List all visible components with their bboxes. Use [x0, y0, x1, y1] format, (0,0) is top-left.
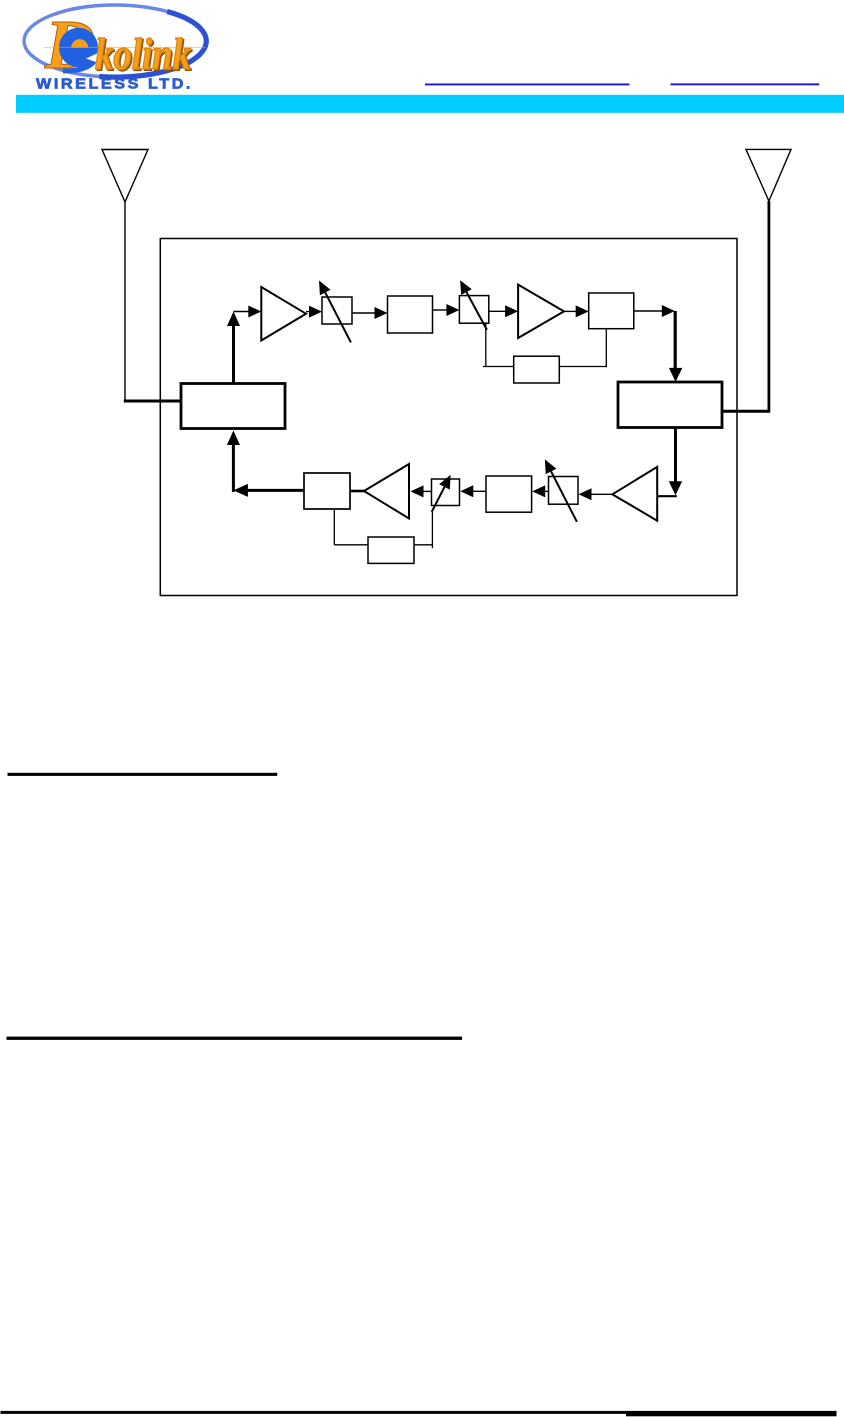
wire duplexer-right bottom drop	[674, 428, 677, 483]
wire corner to amp U3	[657, 495, 677, 497]
wire down into duplexer right	[674, 311, 677, 369]
attenuator AT1 box	[322, 297, 352, 324]
arrow into amp U2	[505, 305, 518, 317]
arrow down to lower chain	[669, 481, 682, 495]
coupler path wire up to FL2	[605, 329, 607, 368]
wire amp U3 out	[590, 493, 612, 495]
attenuator AT2 diagonal arrowhead	[460, 280, 472, 295]
arrow up into top chain	[227, 312, 240, 327]
logo letter e counter	[71, 39, 88, 47]
attenuator AT4 diagonal arrowhead	[439, 475, 450, 490]
coupler CPL1 box	[514, 356, 560, 383]
antenna left	[102, 150, 148, 203]
arrow into amp U4	[411, 485, 424, 497]
wire amp U4 to box FL4	[350, 490, 364, 493]
wire FL4 to left corner	[246, 489, 304, 492]
coupler path wire AT2 down	[485, 323, 487, 366]
attenuator AT4 diagonal	[432, 487, 445, 512]
arrow left at lower corner	[233, 484, 248, 497]
section heading underline 2	[7, 1037, 463, 1040]
amplifier U4	[364, 464, 409, 519]
arrow at top right corner	[662, 305, 675, 317]
attenuator AT3 diagonal	[551, 471, 577, 521]
wire amp U2 out	[564, 310, 577, 312]
logo ellipse right arc	[99, 12, 206, 78]
filter FL3	[486, 476, 532, 512]
arrow into filter FL3	[532, 485, 545, 497]
svg-text:kolink: kolink	[95, 30, 191, 79]
coupler path wire to CPL2	[334, 544, 368, 546]
arrow into attenuator AT2	[446, 304, 459, 316]
attenuator AT1 diagonal	[325, 293, 351, 343]
attenuator AT4 box	[432, 479, 460, 506]
arrow into attenuator AT1	[309, 306, 322, 318]
logo ellipse	[24, 5, 206, 77]
logo letter e disc	[59, 28, 98, 68]
wire up to duplexer left	[232, 443, 235, 492]
amplifier U3	[612, 467, 657, 521]
filter FL4	[304, 473, 350, 509]
svg-text:WIRELESS LTD.: WIRELESS LTD.	[36, 76, 193, 93]
coupler CPL2 box	[368, 537, 414, 563]
attenuator AT2 box	[459, 296, 488, 324]
header blank line 2	[671, 83, 820, 85]
attenuator AT2 diagonal	[467, 292, 487, 330]
arrow into attenuator AT3	[579, 488, 592, 500]
wire AT2 to amp U2	[489, 310, 506, 312]
wire to amp U1	[234, 311, 251, 313]
attenuator AT3 diagonal arrowhead	[545, 459, 557, 474]
coupler path wire to CPL1	[483, 366, 514, 368]
coupler path wire CPL2 out	[414, 544, 432, 546]
wire AT3 to filter FL3	[544, 490, 549, 492]
attenuator AT1 diagonal arrowhead	[319, 281, 331, 296]
footer rule thick right segment	[626, 1411, 837, 1416]
wire AT1 to filter FL1	[352, 312, 376, 314]
arrow into amp U1	[248, 306, 261, 318]
filter FL2	[589, 293, 634, 329]
duplexer right	[618, 382, 722, 428]
cyan header band	[16, 95, 844, 113]
coupler path wire up to AT4	[431, 512, 433, 548]
antenna right	[746, 149, 791, 201]
arrow into filter FL2	[576, 305, 589, 317]
logo letter e aperture	[86, 52, 100, 64]
antenna right feed wire	[722, 410, 770, 413]
antenna left stem wire	[124, 202, 126, 402]
logo streak artifact	[44, 47, 205, 48]
antenna right stem wire	[768, 201, 771, 411]
wire FL1 to attenuator AT2	[433, 309, 449, 311]
wire AT4 to amp U4	[422, 490, 432, 492]
arrow into filter FL1	[375, 307, 388, 319]
header blank line 1	[425, 84, 630, 86]
filter FL1	[388, 296, 433, 333]
footer rule	[1, 1411, 837, 1414]
coupler path wire FL4 down	[333, 509, 335, 545]
arrow into attenuator AT4	[460, 485, 473, 497]
arrow down into duplexer right	[669, 368, 682, 382]
wire FL3 to attenuator AT4	[472, 490, 486, 492]
attenuator AT3 box	[549, 477, 579, 505]
repeater enclosure box	[160, 239, 737, 596]
duplexer left	[181, 384, 285, 429]
wire duplexer-left top riser	[232, 324, 235, 384]
amplifier U1	[261, 287, 306, 341]
wire FL2 to corner	[634, 310, 663, 312]
logo letter e tail swash	[63, 58, 96, 72]
coupler path wire CPL1 out	[559, 366, 606, 368]
arrow up into duplexer left	[227, 431, 240, 446]
wire amp U1 out	[306, 311, 310, 313]
section heading underline 1	[8, 773, 278, 776]
antenna left feed wire	[124, 400, 181, 403]
amplifier U2	[518, 285, 564, 338]
